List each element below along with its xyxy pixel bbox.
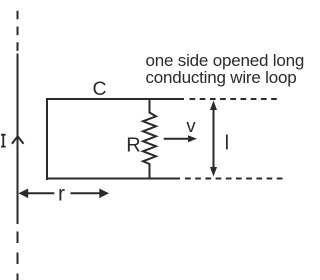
dimension arrow r (distance from wire) [26, 192, 54, 194]
svg-text:r: r [58, 183, 65, 206]
svg-text:conducting wire loop: conducting wire loop [146, 68, 297, 87]
wire: loop left side C [46, 98, 48, 180]
svg-text:R: R [126, 134, 140, 156]
wire: loop top rail [46, 98, 184, 100]
label I (current) [1, 134, 6, 148]
current direction arrow on wire [12, 136, 24, 143]
velocity arrow v [164, 138, 189, 140]
wire: long straight wire dashed lower segment [17, 232, 19, 280]
wire: top rail dashed extension [190, 98, 282, 100]
resistor R (sliding rod) [143, 99, 156, 179]
wire: loop bottom rail [46, 178, 180, 180]
dimension arrow l (loop width) [213, 108, 215, 169]
svg-text:l: l [225, 132, 229, 154]
svg-text:v: v [186, 115, 196, 136]
wire: long straight wire dashed upper segment [17, 11, 19, 51]
wire: long straight wire solid segment [17, 54, 19, 225]
wire: bottom rail dashed extension [185, 178, 285, 180]
svg-text:C: C [92, 78, 106, 100]
